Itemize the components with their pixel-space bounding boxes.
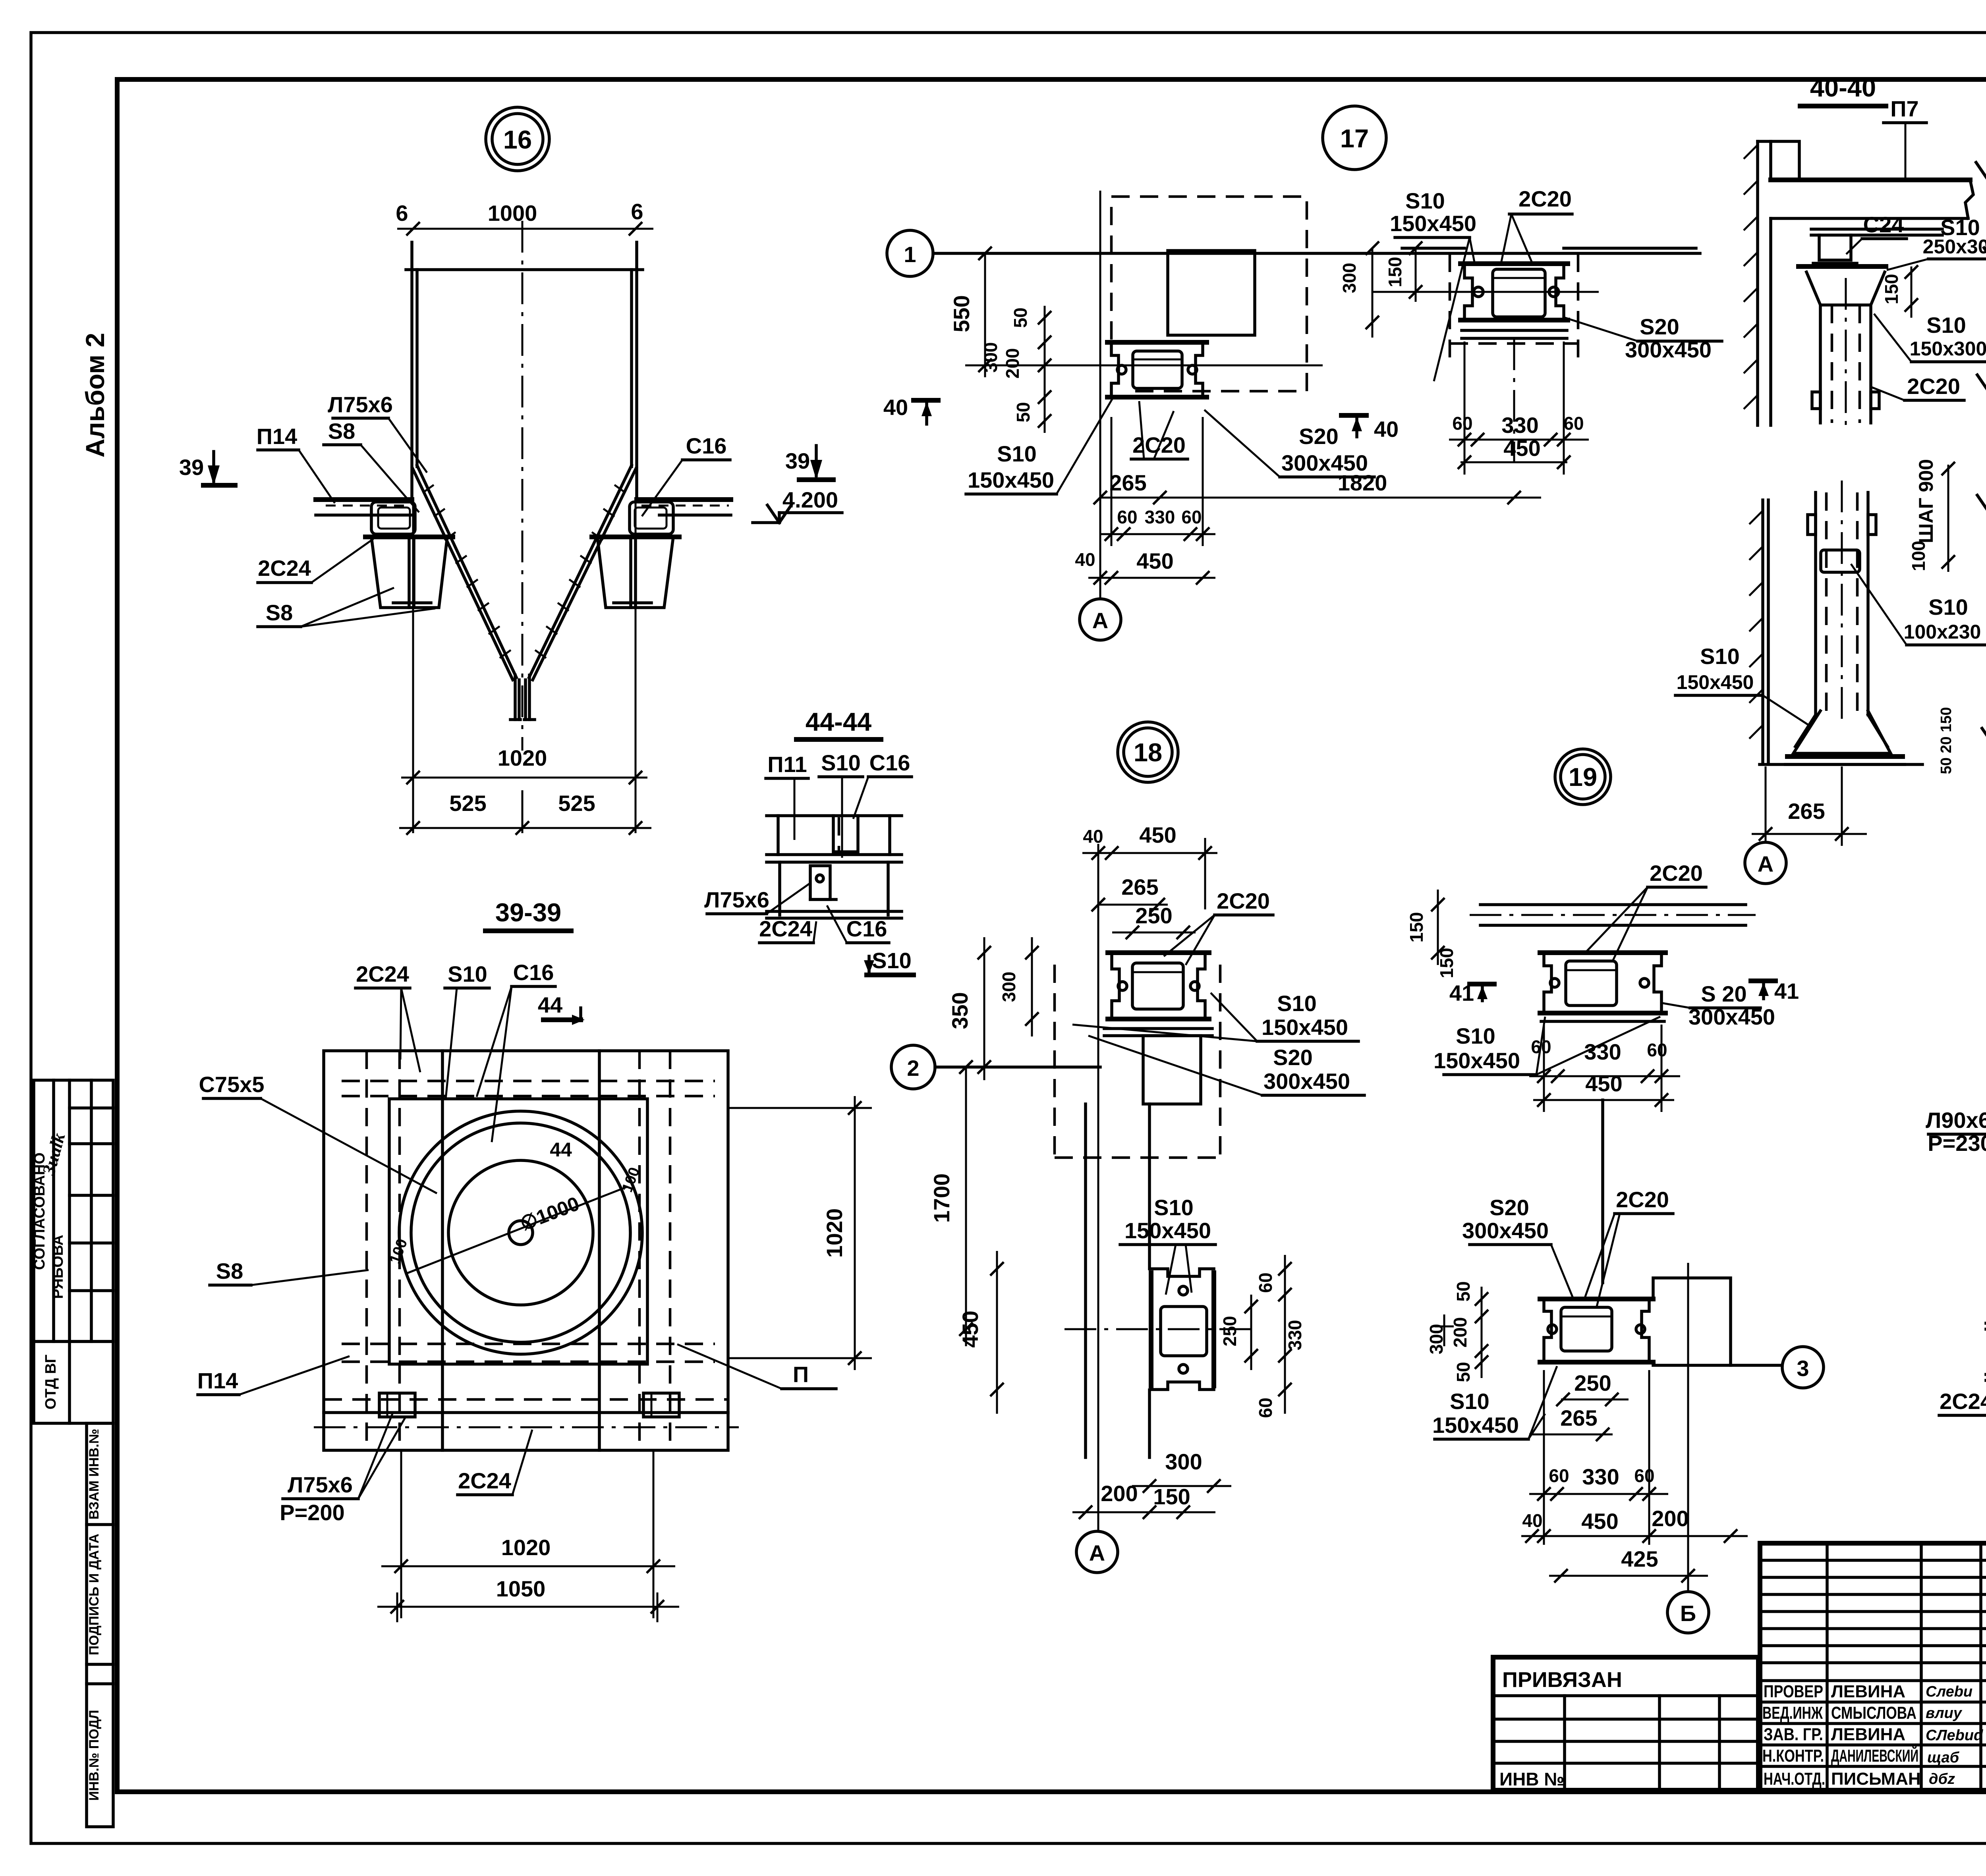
detail head circle 16: [486, 107, 549, 171]
svg-text:S8: S8: [328, 419, 355, 444]
svg-text:Альбом 2: Альбом 2: [80, 333, 110, 457]
svg-text:300x450: 300x450: [1462, 1218, 1549, 1243]
right tank wall: [635, 242, 638, 497]
svg-text:60: 60: [1563, 413, 1584, 434]
dim 550: [984, 253, 986, 377]
svg-text:425: 425: [1621, 1546, 1658, 1571]
dim 150 (right section): [1415, 248, 1417, 302]
svg-text:S10: S10: [997, 441, 1037, 466]
svg-text:60: 60: [1634, 1465, 1654, 1486]
svg-text:330: 330: [1285, 1320, 1305, 1351]
svg-text:РЯБОВА: РЯБОВА: [50, 1235, 66, 1299]
svg-text:ПОДПИСЬ И ДАТА: ПОДПИСЬ И ДАТА: [87, 1534, 102, 1655]
wall panel upper: [777, 816, 780, 855]
grid circle 2 with axis line: [891, 1045, 935, 1089]
column shaft upper (40-40): [1819, 305, 1822, 423]
ceiling slab: [1771, 178, 1970, 182]
dims 50 300 200 50: [1044, 306, 1046, 433]
C24 beam under slab: [1811, 228, 1942, 231]
svg-text:265: 265: [1121, 874, 1158, 899]
right floor slab: [637, 497, 731, 502]
dashed wall outline (detail 18): [1053, 965, 1056, 1158]
svg-text:2С24: 2С24: [356, 961, 409, 986]
svg-text:6: 6: [631, 199, 643, 224]
svg-text:1020: 1020: [501, 1535, 551, 1560]
centerline through right section: [1372, 291, 1599, 293]
dashed hidden column lines right: [638, 1051, 641, 1450]
svg-text:44-44: 44-44: [806, 707, 871, 736]
привязан table outer: [1493, 1657, 1758, 1790]
svg-text:39: 39: [179, 455, 204, 480]
svg-text:СЛеbиd: СЛеbиd: [1926, 1727, 1983, 1744]
svg-text:250x300: 250x300: [1923, 235, 1986, 258]
svg-text:150x450: 150x450: [1433, 1048, 1520, 1073]
svg-text:40: 40: [883, 395, 908, 420]
dims 150 150 left (detail 19): [1437, 890, 1439, 965]
svg-text:S10: S10: [872, 948, 912, 973]
wall solid block: [1168, 251, 1255, 335]
svg-text:350: 350: [947, 992, 972, 1029]
svg-text:200: 200: [1450, 1317, 1470, 1348]
svg-text:330: 330: [1501, 413, 1538, 438]
column section plan (detail 19 top): [1540, 950, 1665, 955]
svg-text:1020: 1020: [498, 745, 547, 770]
svg-text:ВЗАМ ИНВ.№: ВЗАМ ИНВ.№: [87, 1429, 102, 1520]
svg-text:СМЫСЛОВА: СМЫСЛОВА: [1831, 1703, 1916, 1723]
svg-text:300: 300: [999, 972, 1019, 1002]
svg-text:S8: S8: [266, 600, 293, 625]
left signature grid rows (empty upper): [1760, 1559, 1986, 1562]
pedestal below: [1143, 1036, 1201, 1104]
центр line down: [1601, 1100, 1604, 1283]
base plate under section: [1104, 1027, 1212, 1030]
svg-text:19: 19: [1569, 762, 1597, 791]
left margin stamp: box СОГЛАСОВАНО: [31, 1080, 113, 1341]
svg-text:Л75x6: Л75x6: [704, 887, 769, 912]
svg-text:450: 450: [1585, 1071, 1622, 1096]
svg-text:3: 3: [1797, 1356, 1809, 1381]
wall strip (elevation below): [1084, 1104, 1087, 1457]
svg-text:С16: С16: [513, 960, 554, 985]
svg-text:S10: S10: [1926, 313, 1966, 338]
svg-text:450: 450: [1581, 1509, 1618, 1534]
svg-text:ЛЕВИНА: ЛЕВИНА: [1831, 1725, 1905, 1744]
svg-text:450: 450: [958, 1310, 983, 1347]
svg-text:39: 39: [785, 448, 810, 473]
grid axis circle 1: [887, 230, 933, 276]
svg-text:100x230: 100x230: [1904, 621, 1981, 643]
svg-text:265: 265: [1560, 1405, 1597, 1430]
svg-text:300: 300: [1165, 1449, 1202, 1474]
grid circle 3: [1782, 1347, 1824, 1388]
svg-text:Н.КОНТР.: Н.КОНТР.: [1762, 1746, 1824, 1766]
svg-text:S10: S10: [1700, 644, 1740, 669]
svg-text:150x450: 150x450: [1432, 1413, 1519, 1438]
svg-text:150: 150: [1385, 257, 1405, 288]
svg-text:ПИСЬМАН: ПИСЬМАН: [1831, 1769, 1921, 1789]
svg-text:2С20: 2С20: [1907, 374, 1960, 399]
hatched wall lower + column base (40-40): [1761, 500, 1764, 762]
base plate S20 under right section: [1462, 329, 1567, 332]
svg-text:100: 100: [1908, 541, 1929, 571]
handwritten signatures column: [1926, 1683, 1983, 1787]
svg-text:50 20 150: 50 20 150: [1938, 707, 1955, 774]
anchor plate S10 100x230: [1821, 550, 1860, 572]
svg-text:1820: 1820: [1338, 470, 1387, 495]
svg-text:41: 41: [1774, 979, 1799, 1004]
ШАГ 900 dim: [1947, 465, 1949, 572]
dims right of lower section 60 250 330 60: [1250, 1295, 1252, 1370]
svg-text:6: 6: [396, 201, 408, 226]
svg-text:450: 450: [1139, 822, 1176, 847]
svg-text:250: 250: [1135, 903, 1172, 928]
svg-text:150x450: 150x450: [1677, 671, 1754, 693]
grid circle Б (detail 19): [1667, 1592, 1709, 1633]
svg-text:S10: S10: [1456, 1023, 1495, 1048]
svg-text:S8: S8: [216, 1258, 243, 1283]
svg-text:44: 44: [538, 992, 562, 1017]
svg-text:ЗАВ. ГР.: ЗАВ. ГР.: [1764, 1725, 1823, 1744]
circle inner bold: [448, 1160, 593, 1305]
svg-text:П14: П14: [197, 1368, 238, 1393]
title block outer: [1760, 1543, 1986, 1790]
angle Л75x6 with anchor: [810, 866, 830, 899]
svg-text:1700: 1700: [929, 1173, 954, 1223]
svg-text:60: 60: [1549, 1465, 1569, 1486]
dashed wall outline around right section: [1449, 254, 1451, 357]
svg-text:450: 450: [1136, 548, 1173, 573]
svg-text:П11: П11: [767, 752, 807, 777]
svg-text:щаб: щаб: [1927, 1749, 1960, 1766]
svg-text:Б: Б: [1680, 1601, 1696, 1626]
svg-text:450: 450: [1503, 436, 1540, 461]
base flare (40-40): [1793, 711, 1891, 753]
svg-text:S10: S10: [821, 750, 861, 775]
svg-text:С75x5: С75x5: [199, 1072, 264, 1097]
svg-text:S20: S20: [1299, 424, 1339, 449]
svg-text:2С24: 2С24: [759, 916, 812, 941]
svg-text:44: 44: [550, 1139, 572, 1161]
circle ring outer: [399, 1111, 642, 1354]
svg-text:265: 265: [1109, 470, 1146, 495]
outlet tube: [514, 675, 517, 720]
svg-text:П14: П14: [257, 424, 298, 449]
svg-text:Л90x6: Л90x6: [1926, 1108, 1986, 1133]
svg-text:40: 40: [1374, 417, 1399, 442]
dim 450 lower: [996, 1251, 998, 1414]
column section plan (detail 17 right): [1461, 261, 1568, 266]
svg-text:S10: S10: [1928, 594, 1968, 620]
svg-text:18: 18: [1134, 738, 1162, 767]
svg-text:550: 550: [949, 295, 974, 332]
svg-text:S10: S10: [1277, 991, 1317, 1016]
svg-text:П7: П7: [1890, 96, 1918, 121]
svg-text:Л75x6: Л75x6: [328, 392, 393, 417]
dim 300 left: [1031, 937, 1033, 1036]
dim 1700: [965, 1067, 967, 1346]
svg-text:60: 60: [1181, 507, 1202, 527]
stiffener tabs: [1812, 392, 1820, 409]
left margin stamp: column ВЗАМ ИНВ / ПОДПИСЬ И ДАТА / ИНВ ПОДЛ: [87, 1423, 113, 1827]
svg-text:2: 2: [907, 1056, 919, 1081]
svg-text:дбz: дбz: [1929, 1771, 1955, 1787]
svg-text:300: 300: [980, 342, 1001, 373]
svg-text:S10: S10: [1450, 1389, 1489, 1414]
svg-text:S20: S20: [1273, 1045, 1313, 1070]
svg-text:S10: S10: [1405, 188, 1445, 213]
svg-text:300: 300: [1339, 263, 1360, 293]
left floor slab: [316, 497, 412, 502]
ground line (40-40): [1760, 763, 1922, 766]
svg-text:1: 1: [904, 242, 916, 267]
anchor detail left in lower band: [379, 1393, 415, 1417]
vertical axis line (detail 18): [1097, 844, 1099, 1531]
dim 150 cap: [1911, 266, 1913, 318]
column section plan (detail 17 left): [1107, 340, 1207, 345]
svg-text:2С20: 2С20: [1518, 186, 1572, 211]
column section plan (detail 18): [1108, 950, 1209, 955]
slab outer rectangle: [324, 1051, 728, 1450]
svg-text:ШАГ 900: ШАГ 900: [1915, 459, 1937, 543]
funnel slope hatch: [423, 485, 626, 658]
circle ring second: [411, 1123, 630, 1342]
svg-text:S 20: S 20: [1701, 981, 1746, 1006]
svg-text:2С24: 2С24: [458, 1468, 511, 1493]
svg-text:330: 330: [1582, 1464, 1619, 1489]
svg-text:2С20: 2С20: [1650, 861, 1703, 886]
grid circle A (detail 17): [1080, 599, 1121, 640]
svg-text:200: 200: [1652, 1506, 1688, 1531]
column section lower (detail 18): [1149, 1273, 1153, 1386]
wall top edge line: [406, 268, 643, 271]
svg-text:Слеbи: Слеbи: [1926, 1683, 1972, 1700]
grid axis line 1: [933, 252, 1700, 255]
svg-text:40-40: 40-40: [1810, 73, 1876, 102]
grid circle A (40-40): [1745, 842, 1786, 884]
right channel C24 section: [630, 502, 673, 534]
svg-text:S10: S10: [448, 961, 487, 986]
svg-text:250: 250: [1574, 1370, 1611, 1395]
svg-text:265: 265: [1788, 799, 1825, 824]
hatched wall upper: [1756, 141, 1759, 425]
svg-text:150: 150: [1406, 912, 1427, 943]
svg-text:60: 60: [1255, 1272, 1276, 1293]
svg-text:200: 200: [1101, 1481, 1138, 1506]
detail head circle 18: [1118, 722, 1178, 782]
left support bracket: [371, 537, 447, 608]
svg-text:ИНВ.№ ПОДЛ: ИНВ.№ ПОДЛ: [87, 1710, 102, 1801]
right support bracket: [597, 537, 673, 608]
diameter line with label 1000: [405, 1187, 628, 1274]
svg-text:Л75x6: Л75x6: [288, 1472, 353, 1497]
svg-text:А: А: [1092, 608, 1108, 633]
signature rows text: [1762, 1682, 1921, 1789]
vertical axis A (detail 17): [1099, 191, 1101, 598]
svg-text:НАЧ.ОТД.: НАЧ.ОТД.: [1764, 1769, 1825, 1789]
detail head circle 19: [1555, 749, 1611, 805]
svg-text:А: А: [1089, 1540, 1105, 1565]
svg-text:S20: S20: [1640, 314, 1679, 339]
svg-text:50: 50: [1013, 402, 1034, 422]
wall outline dashed: [1111, 197, 1307, 391]
funnel right slope: [529, 465, 632, 677]
wall panel edges (vertical solid): [441, 1051, 444, 1450]
dimension 1020 right (vertical): [728, 1107, 872, 1109]
grid circle A (detail 18): [1076, 1531, 1118, 1573]
svg-text:200: 200: [1002, 348, 1023, 379]
svg-text:50: 50: [1010, 307, 1031, 328]
svg-text:С16: С16: [846, 916, 887, 941]
svg-text:1050: 1050: [496, 1576, 546, 1601]
svg-text:1000: 1000: [488, 201, 537, 226]
svg-text:S10: S10: [1154, 1195, 1194, 1220]
svg-text:60: 60: [1255, 1397, 1276, 1418]
svg-text:ИНВ №: ИНВ №: [1499, 1769, 1565, 1789]
column cap (40-40): [1799, 264, 1886, 269]
svg-text:330: 330: [1145, 507, 1175, 527]
svg-text:50: 50: [1453, 1281, 1474, 1301]
svg-text:150: 150: [1436, 948, 1457, 979]
wall panel lower: [778, 862, 781, 915]
floor slab lines: [1402, 247, 1464, 250]
floor line pair: [767, 853, 902, 856]
svg-text:Р=200: Р=200: [280, 1500, 345, 1525]
circle small center: [509, 1221, 533, 1245]
svg-text:40: 40: [1075, 549, 1095, 570]
svg-text:17: 17: [1340, 124, 1369, 153]
svg-text:150x300: 150x300: [1910, 338, 1986, 360]
svg-text:150: 150: [1153, 1484, 1190, 1509]
column centerline horizontal: [965, 365, 1323, 367]
svg-text:ПРИВЯЗАН: ПРИВЯЗАН: [1502, 1668, 1622, 1692]
svg-text:60: 60: [1531, 1036, 1551, 1057]
svg-text:60: 60: [1452, 413, 1472, 434]
svg-text:39-39: 39-39: [495, 898, 561, 927]
detail head circle 17: [1323, 106, 1386, 170]
svg-text:150x450: 150x450: [1124, 1218, 1211, 1243]
svg-text:4.200: 4.200: [782, 487, 838, 512]
dashed horizontal hidden lines upper: [342, 1080, 715, 1083]
svg-text:С16: С16: [686, 433, 727, 458]
svg-text:525: 525: [449, 791, 486, 816]
svg-text:2С20: 2С20: [1616, 1187, 1669, 1212]
svg-text:1020: 1020: [822, 1208, 847, 1258]
top beam lines: [1480, 903, 1746, 906]
column section plan (detail 19 lower): [1540, 1297, 1653, 1301]
corbel centerline: [1687, 1263, 1689, 1592]
anchor detail right in lower band: [643, 1393, 679, 1417]
С16 channel in wall: [833, 816, 858, 852]
svg-text:16: 16: [503, 125, 532, 154]
svg-text:150: 150: [1881, 274, 1902, 305]
svg-text:2С20: 2С20: [1217, 888, 1270, 913]
dim 350 left: [983, 937, 985, 1080]
svg-text:150x450: 150x450: [968, 467, 1054, 492]
svg-text:ВЕД.ИНЖ: ВЕД.ИНЖ: [1762, 1703, 1823, 1723]
left tank wall: [410, 242, 413, 497]
svg-text:ОТД ВГ: ОТД ВГ: [43, 1355, 59, 1409]
dim 300 (right section): [1372, 248, 1374, 338]
svg-text:ДАНИЛЕВСКИЙ: ДАНИЛЕВСКИЙ: [1831, 1745, 1918, 1766]
corbel block right: [1653, 1278, 1731, 1365]
svg-text:525: 525: [558, 791, 595, 816]
svg-text:S20: S20: [1489, 1195, 1529, 1220]
svg-text:50: 50: [1453, 1362, 1474, 1382]
lower slab band: [324, 1411, 728, 1414]
left channel C24 section: [371, 502, 415, 534]
svg-text:330: 330: [1584, 1039, 1621, 1064]
svg-text:300x450: 300x450: [1263, 1069, 1350, 1094]
dashed horizontal hidden lines lower: [342, 1343, 715, 1345]
svg-text:П: П: [793, 1362, 809, 1387]
svg-text:40: 40: [1083, 826, 1103, 847]
svg-text:60: 60: [1647, 1040, 1667, 1060]
svg-text:А: А: [1758, 851, 1773, 876]
svg-text:влиу: влиу: [1926, 1705, 1963, 1722]
svg-text:С16: С16: [869, 750, 910, 775]
dashed hidden column lines left: [365, 1051, 368, 1450]
svg-text:150x450: 150x450: [1262, 1015, 1348, 1040]
svg-text:40: 40: [1522, 1510, 1542, 1531]
svg-text:ПРОВЕР: ПРОВЕР: [1764, 1682, 1823, 1701]
line to circle 3: [1731, 1364, 1782, 1367]
svg-text:250: 250: [1219, 1316, 1240, 1347]
dims 50 200 300 50 left (detail 19 lower): [1481, 1287, 1483, 1378]
inner thick square: [389, 1099, 647, 1364]
svg-text:2С24: 2С24: [1940, 1389, 1986, 1414]
column shaft lower (40-40): [1814, 492, 1817, 715]
centerline: [522, 221, 524, 751]
svg-text:150x450: 150x450: [1390, 211, 1476, 236]
svg-text:60: 60: [1117, 507, 1137, 527]
funnel left slope: [417, 465, 516, 677]
svg-text:ЛЕВИНА: ЛЕВИНА: [1831, 1682, 1905, 1701]
left signature grid verticals: [1826, 1543, 1829, 1790]
svg-text:2С24: 2С24: [258, 556, 311, 581]
svg-text:С24: С24: [1863, 212, 1904, 237]
left margin stamp: box ОТД ВГ: [34, 1341, 113, 1423]
